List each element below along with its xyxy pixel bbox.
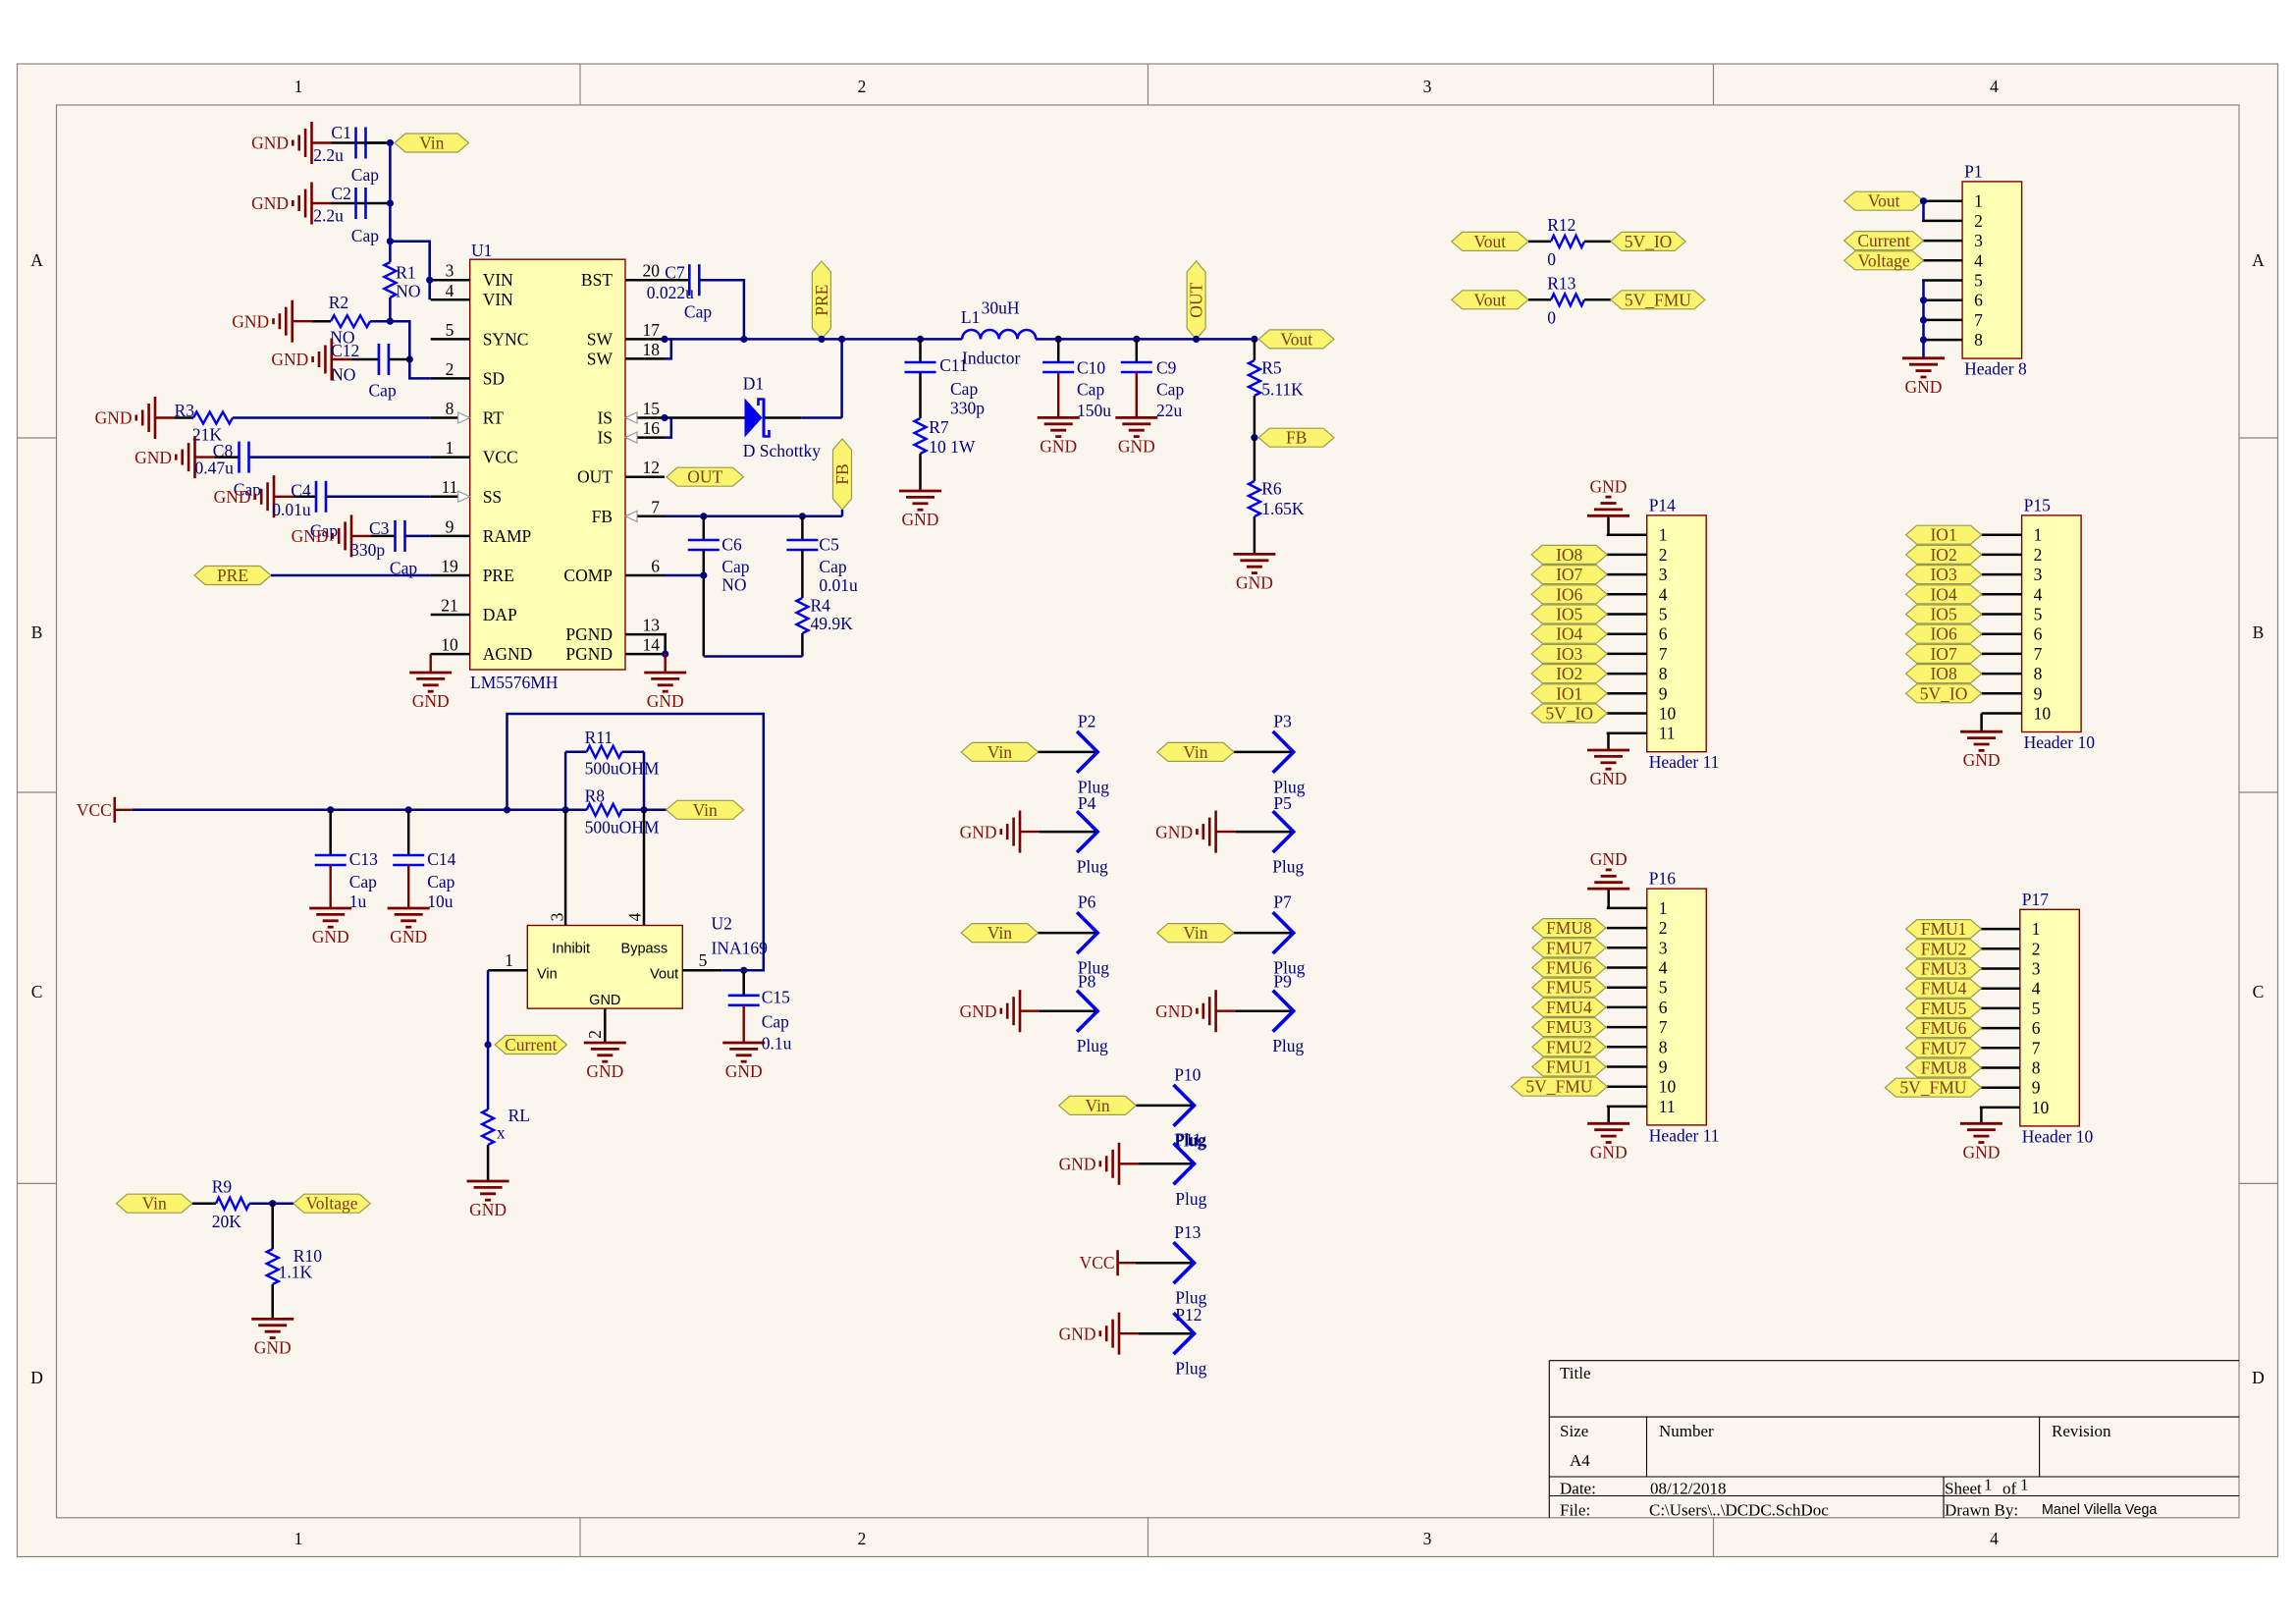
svg-text:IS: IS	[597, 428, 613, 448]
svg-text:D: D	[30, 1368, 43, 1387]
svg-text:SW: SW	[587, 329, 614, 349]
svg-text:15: 15	[643, 399, 661, 418]
svg-text:IO4: IO4	[1556, 624, 1582, 644]
svg-text:Cap: Cap	[369, 381, 397, 401]
svg-text:22u: 22u	[1156, 401, 1183, 420]
svg-text:Plug: Plug	[1175, 1129, 1206, 1149]
svg-text:R7: R7	[929, 417, 949, 437]
svg-text:Inhibit: Inhibit	[552, 941, 590, 956]
svg-text:FMU5: FMU5	[1546, 978, 1592, 998]
svg-text:2: 2	[446, 359, 454, 379]
svg-text:R1: R1	[396, 263, 415, 283]
svg-text:10: 10	[441, 635, 458, 655]
svg-text:Inductor: Inductor	[962, 348, 1020, 367]
svg-text:12: 12	[643, 458, 661, 477]
svg-text:Cap: Cap	[950, 379, 978, 399]
svg-text:3: 3	[1423, 1529, 1432, 1548]
svg-text:IO1: IO1	[1556, 683, 1582, 703]
svg-text:GND: GND	[586, 1061, 623, 1081]
svg-text:FMU6: FMU6	[1921, 1018, 1967, 1038]
svg-text:1: 1	[505, 950, 513, 970]
svg-text:P1: P1	[1964, 161, 1982, 181]
svg-text:VIN: VIN	[483, 270, 513, 290]
svg-text:6: 6	[1659, 624, 1668, 644]
svg-text:2.2u: 2.2u	[313, 206, 344, 226]
svg-text:GND: GND	[589, 993, 620, 1008]
svg-text:B: B	[2253, 622, 2265, 642]
svg-text:5: 5	[699, 950, 708, 970]
svg-text:4: 4	[624, 912, 644, 921]
svg-text:5V_IO: 5V_IO	[1920, 683, 1968, 703]
svg-text:Current: Current	[505, 1035, 558, 1055]
svg-text:20: 20	[643, 261, 661, 281]
svg-text:5.11K: 5.11K	[1261, 379, 1304, 399]
svg-text:1: 1	[294, 1529, 303, 1548]
svg-text:Vin: Vin	[537, 967, 558, 983]
svg-text:5: 5	[1659, 978, 1668, 998]
svg-text:10: 10	[2032, 1098, 2050, 1117]
svg-text:GND: GND	[412, 691, 450, 711]
svg-text:4: 4	[2032, 979, 2041, 999]
svg-text:IO3: IO3	[1930, 565, 1956, 584]
svg-text:8: 8	[1659, 1037, 1668, 1056]
svg-text:GND: GND	[1059, 1324, 1096, 1343]
svg-text:3: 3	[446, 261, 454, 281]
svg-text:13: 13	[643, 616, 661, 635]
svg-text:Vout: Vout	[1280, 329, 1312, 349]
svg-text:P10: P10	[1174, 1065, 1201, 1085]
svg-text:Vin: Vin	[693, 800, 718, 820]
svg-text:7: 7	[1974, 310, 1983, 330]
svg-text:GND: GND	[647, 691, 684, 711]
svg-text:18: 18	[643, 340, 661, 359]
svg-text:21: 21	[441, 596, 458, 616]
svg-text:3: 3	[1659, 938, 1668, 957]
svg-text:Vout: Vout	[1868, 191, 1900, 211]
svg-text:IO2: IO2	[1930, 545, 1956, 565]
svg-text:330p: 330p	[950, 399, 985, 418]
svg-text:4: 4	[1974, 250, 1983, 270]
svg-text:Vin: Vin	[419, 134, 444, 153]
svg-text:8: 8	[1974, 330, 1983, 350]
svg-text:7: 7	[1659, 644, 1668, 664]
svg-text:Date:: Date:	[1560, 1480, 1596, 1498]
svg-text:P8: P8	[1078, 972, 1096, 992]
svg-text:GND: GND	[254, 1337, 292, 1357]
svg-text:IO2: IO2	[1556, 664, 1582, 683]
svg-text:5: 5	[2032, 999, 2041, 1018]
svg-text:FB: FB	[1286, 428, 1307, 448]
svg-text:1: 1	[1659, 525, 1668, 545]
svg-text:File:: File:	[1560, 1501, 1590, 1520]
svg-text:FMU5: FMU5	[1921, 999, 1967, 1018]
svg-text:4: 4	[2034, 584, 2043, 604]
svg-text:1: 1	[1974, 191, 1983, 211]
svg-text:Cap: Cap	[1077, 379, 1104, 399]
svg-text:Bypass: Bypass	[621, 941, 668, 956]
svg-text:FMU3: FMU3	[1546, 1017, 1592, 1037]
svg-text:1: 1	[2020, 1476, 2029, 1494]
svg-text:VCC: VCC	[77, 800, 112, 820]
svg-text:SD: SD	[483, 368, 505, 388]
svg-text:IS: IS	[597, 408, 613, 428]
svg-text:1: 1	[1659, 898, 1668, 918]
svg-text:OUT: OUT	[1187, 282, 1206, 317]
svg-text:FMU7: FMU7	[1546, 938, 1592, 957]
svg-text:FMU8: FMU8	[1546, 918, 1592, 938]
svg-text:FMU1: FMU1	[1921, 919, 1967, 939]
svg-text:P5: P5	[1273, 793, 1292, 813]
svg-text:1: 1	[294, 77, 303, 96]
svg-text:4: 4	[1659, 584, 1668, 604]
svg-text:R11: R11	[585, 728, 614, 747]
svg-text:14: 14	[643, 635, 661, 655]
svg-text:GND: GND	[1155, 822, 1193, 841]
svg-text:C: C	[2253, 982, 2265, 1001]
svg-text:R13: R13	[1547, 274, 1575, 294]
svg-text:7: 7	[2034, 644, 2043, 664]
svg-text:GND: GND	[1590, 849, 1628, 869]
svg-text:P7: P7	[1273, 893, 1292, 912]
svg-text:GND: GND	[251, 193, 289, 213]
svg-text:R4: R4	[811, 596, 831, 616]
svg-text:2.2u: 2.2u	[313, 145, 344, 165]
svg-text:6: 6	[2034, 624, 2043, 644]
svg-text:Cap: Cap	[819, 557, 846, 576]
svg-text:C11: C11	[939, 355, 968, 375]
svg-text:5V_FMU: 5V_FMU	[1899, 1078, 1966, 1098]
svg-text:30uH: 30uH	[982, 298, 1020, 317]
svg-text:RL: RL	[508, 1106, 530, 1125]
svg-text:GND: GND	[1118, 436, 1155, 456]
svg-text:3: 3	[2032, 959, 2041, 979]
svg-text:4: 4	[1990, 77, 1999, 96]
svg-text:Vout: Vout	[1473, 232, 1506, 251]
svg-text:0.1u: 0.1u	[762, 1034, 792, 1054]
svg-text:16: 16	[643, 418, 661, 438]
svg-text:OUT: OUT	[577, 467, 613, 487]
svg-text:C:\Users\..\DCDC.SchDoc: C:\Users\..\DCDC.SchDoc	[1649, 1501, 1829, 1520]
svg-text:P13: P13	[1174, 1222, 1201, 1242]
svg-text:Drawn By:: Drawn By:	[1945, 1501, 2018, 1520]
svg-text:Plug: Plug	[1272, 1036, 1304, 1055]
svg-text:LM5576MH: LM5576MH	[470, 673, 559, 692]
svg-text:GND: GND	[1059, 1155, 1096, 1174]
svg-text:D Schottky: D Schottky	[743, 441, 821, 460]
svg-text:GND: GND	[960, 822, 997, 841]
svg-text:GND: GND	[1236, 572, 1273, 592]
svg-text:3: 3	[1974, 231, 1983, 250]
svg-text:10: 10	[1659, 704, 1677, 724]
svg-text:Number: Number	[1659, 1422, 1714, 1440]
svg-text:Vin: Vin	[1085, 1096, 1109, 1115]
svg-text:Header 10: Header 10	[2024, 732, 2096, 752]
svg-text:x: x	[497, 1123, 506, 1143]
svg-text:8: 8	[1659, 664, 1668, 683]
svg-text:GND: GND	[232, 311, 269, 331]
svg-text:9: 9	[1659, 683, 1668, 703]
svg-text:P2: P2	[1078, 712, 1095, 731]
svg-text:RAMP: RAMP	[483, 526, 532, 546]
svg-text:330p: 330p	[350, 540, 385, 560]
svg-text:10: 10	[1659, 1077, 1677, 1097]
svg-text:Cap: Cap	[349, 872, 377, 892]
svg-text:C6: C6	[721, 535, 742, 555]
svg-text:PRE: PRE	[483, 566, 514, 585]
svg-text:VCC: VCC	[483, 448, 518, 467]
svg-text:Title: Title	[1560, 1364, 1591, 1382]
svg-text:GND: GND	[292, 526, 329, 546]
svg-text:A: A	[2252, 250, 2265, 270]
svg-text:6: 6	[1659, 998, 1668, 1017]
svg-text:Vin: Vin	[142, 1194, 167, 1214]
svg-text:7: 7	[1659, 1017, 1668, 1037]
svg-text:IO7: IO7	[1556, 565, 1582, 584]
svg-text:SW: SW	[587, 349, 614, 368]
svg-text:0.01u: 0.01u	[272, 500, 311, 519]
svg-text:Current: Current	[1857, 231, 1910, 250]
svg-text:P15: P15	[2024, 495, 2051, 514]
svg-text:SS: SS	[483, 487, 502, 507]
svg-text:Header 10: Header 10	[2022, 1126, 2094, 1146]
svg-text:FMU2: FMU2	[1546, 1037, 1592, 1056]
svg-text:9: 9	[2034, 683, 2043, 703]
svg-text:OUT: OUT	[687, 467, 722, 487]
svg-text:7: 7	[2032, 1038, 2041, 1057]
svg-text:4: 4	[446, 281, 454, 300]
svg-text:10 1W: 10 1W	[929, 437, 976, 457]
svg-text:R6: R6	[1261, 479, 1282, 499]
svg-text:IO8: IO8	[1556, 545, 1582, 565]
svg-text:P9: P9	[1273, 972, 1292, 992]
svg-text:GND: GND	[95, 408, 133, 428]
svg-text:C15: C15	[762, 988, 790, 1007]
svg-text:10: 10	[2034, 704, 2052, 724]
svg-text:NO: NO	[396, 282, 420, 301]
svg-text:FMU3: FMU3	[1921, 959, 1967, 979]
svg-text:Vin: Vin	[988, 923, 1012, 943]
svg-text:3: 3	[547, 912, 566, 921]
svg-text:6: 6	[651, 557, 660, 576]
svg-text:P14: P14	[1649, 495, 1676, 514]
svg-text:11: 11	[442, 477, 458, 497]
svg-text:IO6: IO6	[1556, 584, 1582, 604]
svg-text:FMU4: FMU4	[1546, 998, 1592, 1017]
svg-text:Cap: Cap	[1156, 379, 1184, 399]
svg-text:FMU1: FMU1	[1546, 1057, 1592, 1077]
svg-text:1u: 1u	[349, 892, 367, 911]
svg-text:Cap: Cap	[721, 557, 749, 576]
svg-text:C4: C4	[291, 481, 311, 501]
svg-text:C: C	[31, 982, 43, 1001]
svg-text:1: 1	[1984, 1476, 1993, 1494]
svg-text:2: 2	[1659, 918, 1668, 938]
svg-text:GND: GND	[271, 350, 308, 369]
svg-text:C2: C2	[331, 184, 350, 203]
svg-text:Manel Vilella Vega: Manel Vilella Vega	[2042, 1502, 2157, 1518]
svg-text:11: 11	[1659, 1097, 1676, 1116]
svg-text:IO6: IO6	[1930, 624, 1956, 644]
svg-text:5V_FMU: 5V_FMU	[1525, 1077, 1592, 1097]
svg-text:Voltage: Voltage	[1858, 250, 1910, 270]
svg-text:0: 0	[1547, 249, 1556, 269]
svg-text:IO5: IO5	[1930, 605, 1956, 624]
svg-text:9: 9	[2032, 1078, 2041, 1098]
svg-text:500uOHM: 500uOHM	[585, 817, 660, 837]
svg-text:D: D	[2252, 1368, 2265, 1387]
svg-text:3: 3	[1659, 565, 1668, 584]
svg-text:8: 8	[446, 399, 454, 418]
svg-text:L1: L1	[961, 307, 980, 327]
svg-text:19: 19	[441, 557, 458, 576]
svg-text:PGND: PGND	[565, 644, 613, 664]
svg-text:08/12/2018: 08/12/2018	[1650, 1480, 1726, 1498]
svg-text:GND: GND	[469, 1200, 507, 1219]
svg-text:2: 2	[858, 1529, 867, 1548]
svg-text:FMU7: FMU7	[1921, 1038, 1967, 1057]
svg-text:Plug: Plug	[1175, 1359, 1206, 1379]
svg-text:U1: U1	[471, 241, 492, 260]
svg-text:C13: C13	[349, 849, 378, 869]
svg-text:C14: C14	[427, 849, 455, 869]
svg-text:NO: NO	[721, 574, 746, 594]
svg-text:3: 3	[2034, 565, 2043, 584]
svg-text:150u: 150u	[1077, 401, 1111, 420]
svg-text:0.47u: 0.47u	[195, 458, 235, 477]
svg-text:of: of	[2002, 1480, 2017, 1498]
svg-text:GND: GND	[960, 1001, 997, 1021]
svg-text:5: 5	[2034, 605, 2043, 624]
svg-text:4: 4	[1659, 958, 1668, 978]
svg-text:IO1: IO1	[1930, 525, 1956, 545]
svg-text:GND: GND	[1590, 1142, 1628, 1162]
svg-text:B: B	[31, 622, 43, 642]
svg-text:Sheet: Sheet	[1945, 1480, 1982, 1498]
svg-text:1.1K: 1.1K	[279, 1262, 313, 1281]
svg-text:FMU6: FMU6	[1546, 958, 1592, 978]
svg-text:GND: GND	[214, 487, 251, 507]
svg-text:P4: P4	[1078, 793, 1096, 813]
svg-text:GND: GND	[1155, 1001, 1193, 1021]
svg-text:Vin: Vin	[1183, 923, 1207, 943]
svg-text:IO5: IO5	[1556, 605, 1582, 624]
svg-text:17: 17	[643, 320, 661, 340]
svg-text:VIN: VIN	[483, 290, 513, 309]
svg-text:2: 2	[858, 77, 867, 96]
svg-text:4: 4	[1990, 1529, 1999, 1548]
svg-text:IO4: IO4	[1930, 584, 1956, 604]
svg-text:C9: C9	[1156, 358, 1177, 378]
svg-text:GND: GND	[1963, 750, 2001, 770]
svg-text:9: 9	[446, 516, 454, 536]
svg-text:U2: U2	[712, 914, 732, 934]
svg-text:GND: GND	[390, 927, 427, 947]
svg-text:2: 2	[585, 1030, 605, 1039]
svg-text:NO: NO	[331, 364, 355, 384]
svg-text:Vin: Vin	[988, 742, 1012, 762]
svg-text:BST: BST	[581, 270, 613, 290]
svg-text:R5: R5	[1261, 358, 1282, 378]
svg-text:0.022u: 0.022u	[647, 283, 694, 302]
svg-text:1: 1	[2034, 525, 2043, 545]
svg-text:1: 1	[446, 438, 454, 458]
svg-text:FMU8: FMU8	[1921, 1058, 1967, 1078]
svg-text:500uOHM: 500uOHM	[585, 759, 660, 779]
svg-text:5V_IO: 5V_IO	[1545, 704, 1593, 724]
svg-text:9: 9	[1659, 1057, 1668, 1077]
svg-text:Revision: Revision	[2052, 1422, 2111, 1440]
svg-text:GND: GND	[1905, 377, 1943, 397]
svg-text:5: 5	[1974, 271, 1983, 291]
svg-text:Cap: Cap	[684, 302, 712, 322]
svg-text:GND: GND	[312, 927, 349, 947]
svg-text:INA169: INA169	[712, 939, 769, 958]
svg-text:IO8: IO8	[1930, 664, 1956, 683]
svg-text:C5: C5	[819, 535, 839, 555]
svg-text:20K: 20K	[212, 1212, 242, 1231]
svg-text:R12: R12	[1547, 215, 1575, 235]
svg-text:IO7: IO7	[1930, 644, 1956, 664]
svg-text:Plug: Plug	[1175, 1189, 1206, 1209]
svg-text:R3: R3	[175, 401, 195, 420]
svg-text:49.9K: 49.9K	[811, 614, 854, 633]
svg-text:Cap: Cap	[351, 165, 379, 185]
svg-text:2: 2	[1659, 545, 1668, 565]
svg-text:Header 11: Header 11	[1649, 752, 1720, 772]
svg-text:FMU4: FMU4	[1921, 979, 1967, 999]
svg-text:PGND: PGND	[565, 624, 613, 644]
svg-text:0.01u: 0.01u	[819, 575, 858, 595]
svg-text:2: 2	[1974, 211, 1983, 231]
svg-text:Header 8: Header 8	[1964, 359, 2027, 379]
svg-text:5V_FMU: 5V_FMU	[1625, 290, 1691, 309]
svg-text:R8: R8	[585, 785, 606, 805]
svg-text:A4: A4	[1570, 1451, 1590, 1470]
svg-text:GND: GND	[134, 448, 172, 467]
svg-text:5: 5	[1659, 605, 1668, 624]
svg-text:IO3: IO3	[1556, 644, 1582, 664]
svg-text:10u: 10u	[427, 892, 454, 911]
svg-text:DAP: DAP	[483, 605, 517, 624]
svg-text:R9: R9	[212, 1177, 233, 1197]
svg-text:Plug: Plug	[1077, 1036, 1108, 1055]
svg-text:P3: P3	[1273, 712, 1292, 731]
svg-text:0: 0	[1547, 308, 1556, 328]
svg-text:Voltage: Voltage	[305, 1194, 357, 1214]
svg-text:Plug: Plug	[1077, 857, 1108, 877]
svg-text:FMU2: FMU2	[1921, 939, 1967, 958]
svg-text:GND: GND	[251, 134, 289, 153]
svg-text:GND: GND	[725, 1061, 763, 1081]
svg-text:FB: FB	[832, 463, 852, 484]
svg-text:2: 2	[2034, 545, 2043, 565]
svg-text:D1: D1	[743, 374, 764, 394]
svg-text:C7: C7	[665, 262, 685, 282]
svg-text:5: 5	[446, 320, 454, 340]
svg-text:6: 6	[1974, 291, 1983, 310]
svg-text:Vin: Vin	[1183, 742, 1207, 762]
svg-text:P17: P17	[2022, 890, 2049, 909]
svg-text:2: 2	[2032, 939, 2041, 958]
svg-text:1: 1	[2032, 919, 2041, 939]
svg-text:A: A	[30, 250, 43, 270]
svg-text:SYNC: SYNC	[483, 329, 529, 349]
svg-text:VCC: VCC	[1080, 1253, 1115, 1272]
svg-text:R2: R2	[329, 293, 348, 312]
svg-text:GND: GND	[1590, 769, 1628, 788]
svg-text:AGND: AGND	[483, 644, 533, 664]
svg-text:FB: FB	[592, 507, 613, 526]
